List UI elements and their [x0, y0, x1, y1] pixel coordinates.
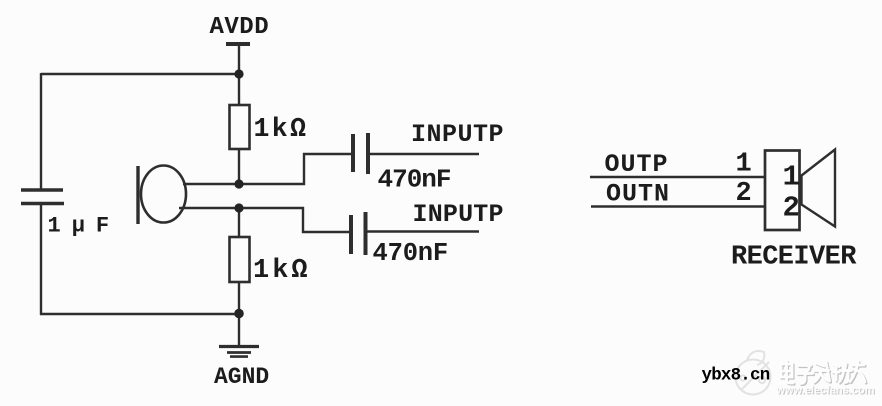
svg-text:www.elecfans.com: www.elecfans.com — [776, 385, 875, 397]
svg-text:470nF: 470nF — [373, 239, 449, 268]
node A junction — [234, 69, 243, 78]
watermark logo circle — [736, 351, 771, 395]
microphone MIC capsule — [141, 166, 186, 223]
svg-text:RECEIVER: RECEIVER — [731, 243, 857, 273]
wire OUTP — [590, 176, 764, 178]
watermark chinese brand — [781, 362, 866, 385]
wire top rail — [41, 73, 239, 75]
ground AGND symbol — [219, 345, 259, 348]
wire bottom rail — [40, 313, 239, 315]
svg-text:OUTN: OUTN — [606, 180, 670, 209]
speaker cone — [802, 150, 836, 227]
resistor R1 body — [230, 105, 250, 149]
svg-text:INPUTP: INPUTP — [413, 200, 504, 229]
microphone MIC back plate — [136, 166, 139, 224]
capacitor C3 470nF plates — [349, 215, 353, 254]
wire left rail upper — [40, 73, 42, 189]
svg-text:1: 1 — [736, 150, 752, 180]
resistor R2 body — [230, 237, 250, 282]
wire mic bottom terminal — [179, 207, 239, 209]
capacitor C2 470nF plates — [351, 134, 355, 172]
svg-text:AGND: AGND — [214, 364, 269, 390]
svg-text:470nF: 470nF — [378, 165, 451, 195]
node C junction — [234, 203, 243, 212]
capacitor C1 1uF plates — [21, 188, 63, 192]
svg-text:1μF: 1μF — [48, 214, 121, 239]
svg-text:2: 2 — [736, 179, 752, 209]
svg-text:OUTP: OUTP — [605, 150, 669, 179]
wire node A to R1 — [238, 74, 240, 105]
svg-text:ybx8.cn: ybx8.cn — [702, 366, 770, 386]
wire node C to C3 — [239, 208, 350, 232]
svg-text:2: 2 — [783, 192, 800, 225]
wire INPUTP lower — [368, 230, 480, 232]
wire node B to C2 — [239, 154, 352, 184]
svg-text:1kΩ: 1kΩ — [254, 114, 309, 144]
wire AVDD stub — [238, 44, 240, 74]
svg-text:1: 1 — [783, 161, 800, 194]
wire left rail lower — [40, 205, 42, 315]
power AVDD bar — [226, 42, 250, 46]
svg-text:INPUTP: INPUTP — [411, 120, 504, 149]
wire node C to R2 — [238, 208, 240, 237]
node D junction — [234, 309, 244, 319]
wire R2 to node D — [238, 282, 240, 314]
svg-text:AVDD: AVDD — [210, 14, 270, 41]
wire mic top terminal — [183, 183, 239, 185]
svg-text:1kΩ: 1kΩ — [253, 256, 311, 286]
wire INPUTP upper — [370, 153, 479, 155]
connector U1 body — [765, 151, 800, 231]
wire OUTN — [591, 205, 764, 207]
wire node D to ground — [238, 314, 240, 346]
wire R1 to node B — [238, 149, 240, 184]
node B junction — [234, 179, 243, 188]
